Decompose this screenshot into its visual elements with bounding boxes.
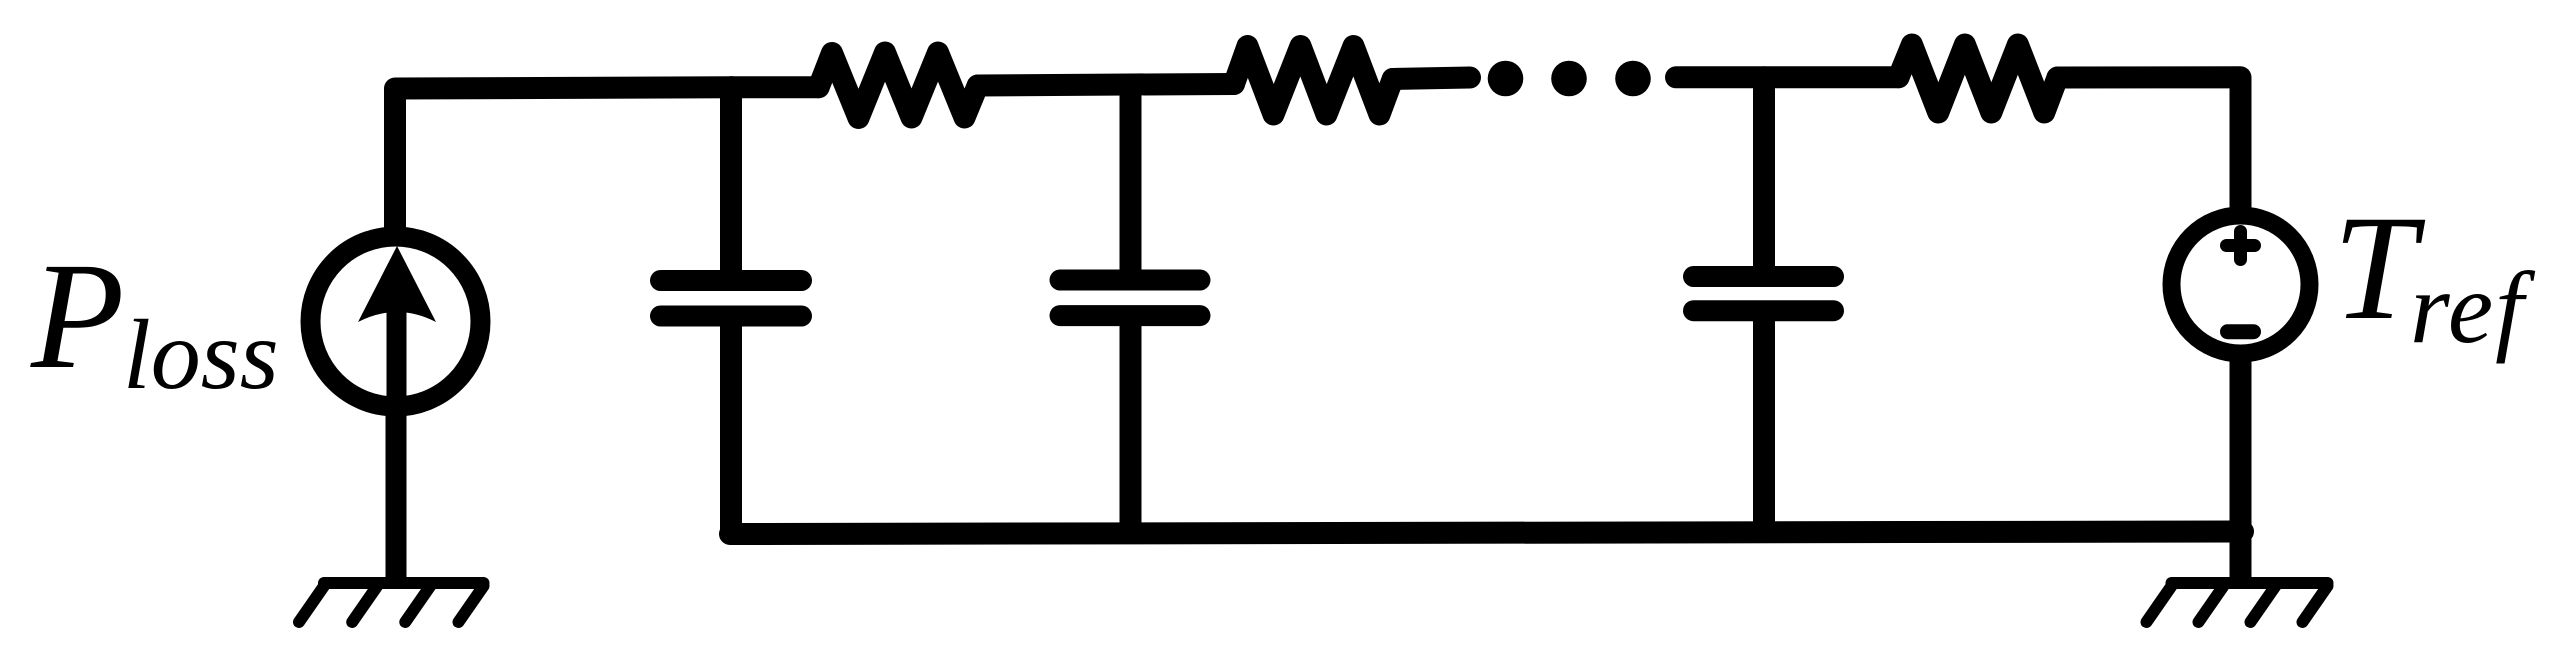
- wire: voltage source to bottom rail and ground: [2230, 358, 2252, 578]
- wire: current source to left ground: [386, 412, 407, 578]
- voltage source T_ref: [2172, 216, 2310, 354]
- capacitor C3: [1694, 77, 1834, 531]
- resistor R3: [1899, 45, 2058, 113]
- resistor R1: [819, 53, 978, 119]
- capacitor C1: [661, 87, 802, 532]
- wire: resistor R3 to top-right corner down to voltage source: [2058, 77, 2241, 211]
- ellipsis dots between stages: [1488, 61, 1651, 97]
- wire: bottom rail from C1 to right ground: [730, 532, 2243, 535]
- svg-text:ref: ref: [2410, 252, 2536, 365]
- capacitor C2: [1060, 85, 1200, 532]
- svg-text:P: P: [30, 232, 124, 401]
- wire: resistor R2 right stub before ellipsis: [1393, 78, 1470, 80]
- wire: node 2 to resistor R2 left lead: [1131, 73, 1234, 96]
- wire: top-left corner from current source up and right to node 1: [395, 87, 732, 233]
- resistor R2: [1234, 46, 1393, 115]
- ground (left): [299, 583, 484, 622]
- svg-text:loss: loss: [123, 299, 279, 410]
- ground (right): [2147, 583, 2328, 622]
- wire: resistor R1 to node 2: [978, 85, 1131, 86]
- wire: node 1 to resistor R1 left lead: [731, 76, 819, 98]
- current source P_loss: [311, 237, 481, 413]
- wire: ellipsis to node 3 and on to resistor R3: [1676, 66, 1899, 88]
